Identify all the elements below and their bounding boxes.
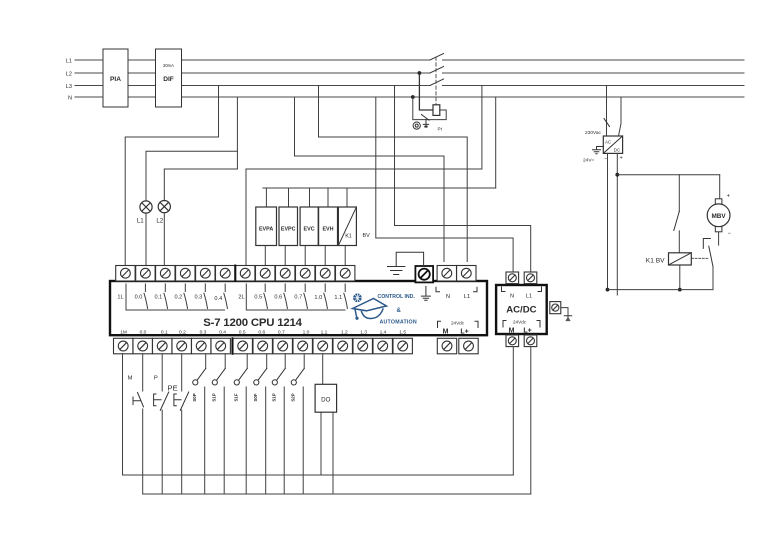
svg-text:EVPA: EVPA (259, 227, 273, 233)
svg-text:L1: L1 (137, 218, 144, 225)
svg-text:230Vac: 230Vac (585, 130, 602, 136)
svg-text:0.6: 0.6 (274, 294, 282, 300)
svg-text:L1: L1 (464, 294, 470, 300)
svg-text:L2: L2 (156, 218, 163, 225)
svg-text:AC: AC (605, 140, 611, 145)
svg-text:0.4: 0.4 (219, 329, 226, 335)
svg-text:Pt: Pt (438, 127, 443, 132)
wire N tap to valve bus riser (495, 97, 497, 188)
svg-text:0.3: 0.3 (195, 294, 203, 300)
svg-text:N: N (446, 294, 450, 300)
svg-text:0.0: 0.0 (135, 294, 143, 300)
pressure switch head PT (413, 122, 420, 129)
svg-text:0.2: 0.2 (179, 329, 186, 335)
svg-text:1L: 1L (117, 294, 123, 300)
svg-text:EVPC: EVPC (281, 227, 296, 233)
dotted linkage K1 (692, 257, 710, 259)
sensor switch S1P (212, 354, 225, 494)
lamp L2 (158, 201, 170, 213)
contactor pole on L3 (430, 79, 444, 86)
svg-text:S0F: S0F (253, 393, 258, 401)
svg-text:1M: 1M (120, 329, 127, 335)
relay contact block K1 BV (338, 207, 356, 246)
svg-text:S-7 1200 CPU 1214: S-7 1200 CPU 1214 (203, 317, 302, 329)
svg-text:0.1: 0.1 (161, 329, 168, 335)
AC/DC output terminal M (506, 335, 519, 347)
K1 auxiliary contact blade (709, 246, 713, 266)
svg-text:24Vdc: 24Vdc (513, 320, 527, 325)
wire motor minus (718, 232, 720, 245)
output module DO (315, 384, 337, 412)
wire bus to EVPA (265, 188, 267, 207)
svg-text:0.2: 0.2 (175, 294, 183, 300)
PLC input 0.2 (184, 284, 188, 309)
svg-text:0.7: 0.7 (294, 294, 302, 300)
wire neutral N (75, 96, 744, 98)
PLC top terminal strip group 1 (116, 266, 235, 282)
sensor switch S0F (254, 354, 267, 494)
PLC bottom channel labels (120, 329, 406, 335)
svg-text:EVH: EVH (322, 227, 333, 233)
minus return rail (608, 289, 714, 291)
pushbutton P (154, 354, 169, 494)
svg-text:S2P: S2P (291, 393, 296, 401)
PLC input 0.1 (164, 284, 168, 309)
svg-text:2L: 2L (238, 294, 244, 300)
K1 auxiliary contact hook (703, 239, 710, 249)
wire bus to EVPC (288, 188, 290, 207)
svg-text:DO: DO (321, 397, 330, 404)
logo globe (353, 293, 362, 302)
wire EVPA to terminal (264, 246, 266, 266)
ground at converter (593, 147, 604, 154)
wire to motor MBV (719, 175, 721, 199)
wire K1 BV to terminal (344, 246, 346, 266)
svg-text:1.3: 1.3 (360, 329, 367, 335)
junction N PT tap (411, 95, 415, 99)
wire N tap to AC/DC N (376, 97, 513, 272)
wire EVPC to terminal (284, 246, 286, 266)
wire EVC to terminal (304, 246, 306, 266)
svg-text:S1P: S1P (272, 393, 277, 401)
wire contact to rail (712, 266, 714, 290)
bracket sensor supply left (436, 287, 440, 292)
sensor switch S0P (193, 354, 206, 494)
wire AC/DC M down (512, 347, 514, 476)
svg-text:1.0: 1.0 (303, 329, 310, 335)
pushbutton M (133, 354, 144, 494)
svg-text:1.5: 1.5 (399, 329, 406, 335)
PLC main unit S-7 1200 CPU 1214 (110, 281, 487, 335)
svg-text:S0P: S0P (192, 393, 197, 401)
svg-text:S1F: S1F (234, 393, 239, 401)
PLC input 1.0 (324, 284, 328, 309)
svg-text:0.3: 0.3 (200, 329, 207, 335)
wire branch to lamp L2 (164, 169, 237, 201)
svg-text:DIF: DIF (163, 76, 174, 83)
wire lamp L2 to input terminal (163, 213, 165, 266)
svg-text:AC/DC: AC/DC (506, 305, 536, 316)
wire 230Vac L3 tap (606, 86, 608, 137)
svg-text:N: N (510, 294, 514, 300)
wire plus branch horizontal (617, 174, 719, 176)
svg-text:1.0: 1.0 (314, 295, 322, 301)
wire bus to EVC (309, 188, 311, 207)
valve EVH (319, 207, 338, 246)
svg-text:+: + (620, 156, 623, 162)
junction L2 PT tap (418, 71, 422, 75)
valve EVPA (256, 207, 277, 246)
wire DO to M-rail (320, 412, 322, 475)
wire converter plus down (616, 153, 618, 295)
lamp L1 (140, 201, 152, 213)
wire 1M to M-rail (122, 354, 124, 475)
svg-text:L+: L+ (523, 328, 531, 335)
wire L3 tap to PLC 2L terminal (246, 86, 482, 266)
PLC input 0.4 (224, 284, 228, 309)
svg-text:PIA: PIA (110, 76, 121, 83)
svg-text:K1: K1 (345, 234, 352, 240)
AC/DC bracket output left (503, 321, 506, 328)
coil PT (433, 105, 440, 116)
PLC bottom terminal strip group 2 (232, 338, 412, 354)
wire L3 tap to AC/DC L1 (395, 86, 531, 273)
sensor switch S1F (234, 354, 247, 494)
wire plus branch to K1 contact (678, 175, 680, 212)
AC/DC output terminal L+ (524, 335, 537, 347)
sensor switch S2P (291, 354, 304, 494)
wire bus to K1 BV (346, 188, 348, 207)
PLC bottom terminal strip group 1 (114, 338, 231, 354)
svg-text:0.5: 0.5 (254, 294, 262, 300)
wire DO to L+-rail (332, 412, 334, 494)
svg-text:0.5: 0.5 (239, 329, 246, 335)
svg-text:30mA: 30mA (163, 63, 174, 68)
power supply AC/DC unit (496, 285, 547, 334)
svg-text:CONTROL IND.: CONTROL IND. (378, 294, 416, 300)
svg-text:−: − (728, 231, 732, 237)
svg-text:L+: L+ (460, 329, 468, 336)
wire N to PT switch (412, 97, 414, 120)
ground symbol at earth terminal (388, 252, 424, 274)
wire L2 to PT coil (419, 73, 433, 110)
wire branch to lamp L1 (146, 151, 237, 201)
svg-text:0.0: 0.0 (140, 329, 147, 335)
PLC input 0.7 (304, 284, 308, 309)
svg-text:+: + (727, 194, 731, 200)
PLC 24Vdc output terminals M L+ (437, 338, 478, 354)
bracket sensor supply right (474, 287, 478, 292)
PLC 1L common bracket (126, 284, 225, 310)
junction coil rail (678, 288, 682, 292)
svg-text:M: M (509, 328, 515, 335)
svg-text:24V=: 24V= (583, 158, 595, 164)
PLC sensor supply terminals N L1 (437, 266, 476, 282)
AC/DC input terminal N (506, 272, 519, 284)
PLC input 0.6 (284, 284, 288, 309)
ground symbol inside PLC (421, 287, 430, 301)
svg-text:L1: L1 (66, 59, 72, 65)
svg-text:S1P: S1P (212, 393, 217, 401)
wire phase L1 (75, 59, 744, 61)
AC/DC bracket input right (538, 287, 542, 292)
L+ rail bottom (143, 493, 531, 495)
wire bus to EVH (327, 188, 329, 207)
svg-text:−: − (604, 156, 607, 162)
AC/DC bracket output right (537, 321, 540, 328)
valve EVC (300, 207, 318, 246)
svg-text:L1: L1 (526, 294, 532, 300)
junction minus rail (606, 288, 610, 292)
svg-text:K1 BV: K1 BV (646, 258, 665, 265)
svg-text:MBV: MBV (711, 213, 726, 220)
AC/DC input terminal L1 (524, 272, 537, 284)
isolator blade left (604, 119, 610, 127)
PLC 2L common bracket (246, 284, 345, 310)
svg-text:DC: DC (614, 148, 620, 153)
svg-text:24Vdc: 24Vdc (451, 321, 465, 326)
PLC input 0.5 (264, 284, 268, 309)
AC/DC side earth terminal (550, 302, 561, 314)
K1 maintain contact blade (674, 211, 680, 230)
svg-text:BV: BV (363, 233, 371, 239)
svg-text:0.6: 0.6 (258, 329, 265, 335)
wire L3 tap to PLC 1L terminal (125, 86, 218, 266)
svg-text:0.7: 0.7 (278, 329, 285, 335)
svg-text:L3: L3 (66, 84, 72, 90)
valve EVPC (279, 207, 298, 246)
pushbutton PE (174, 354, 189, 494)
sensor switch S1P (272, 354, 285, 494)
circuit breaker PIA (103, 49, 128, 107)
switch arm PT (422, 115, 430, 121)
wire contact to coil (678, 231, 680, 253)
svg-text:0.1: 0.1 (155, 294, 163, 300)
wire converter minus down (607, 153, 609, 289)
wire terminal 1.1 to DO (322, 354, 324, 385)
logo graduation cap (353, 299, 387, 319)
converter AC/DC 230V (603, 136, 622, 153)
relay coil K1 BV (669, 253, 692, 265)
svg-text:PE: PE (168, 384, 178, 393)
wire PT coil return loop (413, 110, 446, 120)
svg-text:1.4: 1.4 (380, 329, 387, 335)
wire EVH to terminal (324, 246, 326, 266)
motor MBV (707, 199, 730, 232)
wire N tap to sensor supply N (295, 97, 445, 262)
bracket 24Vdc right (475, 321, 478, 327)
svg-text:M: M (443, 329, 449, 336)
svg-text:M: M (128, 376, 133, 382)
svg-text:1.2: 1.2 (341, 329, 348, 335)
M rail bottom (123, 474, 514, 476)
contactor pole on L2 (430, 67, 444, 74)
PLC input 0.3 (204, 284, 208, 309)
wire phase L3 (75, 85, 744, 87)
svg-text:1.1: 1.1 (321, 329, 328, 335)
svg-text:EVC: EVC (304, 227, 315, 233)
contactor pole on L1 (430, 54, 444, 61)
ground PT (423, 120, 428, 127)
svg-text:L2: L2 (66, 72, 72, 78)
wire lamp L1 to input terminal (145, 213, 147, 265)
AC/DC bracket input left (502, 287, 506, 292)
contactor linkage dashed (435, 57, 437, 104)
PLC top terminal strip group 2 (235, 266, 355, 282)
wire 230Vac N tap (619, 97, 621, 136)
differential breaker DIF (156, 49, 182, 107)
svg-text:P: P (154, 376, 158, 382)
wire N tap lamp feeder (236, 97, 238, 169)
PLC input 0.0 (144, 284, 148, 309)
valve bus (263, 187, 496, 189)
junction plus branch (615, 173, 619, 177)
wire AC/DC L+ down (530, 347, 532, 495)
earth arrow at AC/DC (561, 308, 568, 316)
wire phase L2 (75, 72, 744, 74)
wire coil to rail (679, 265, 681, 290)
svg-text:&: & (397, 308, 402, 314)
svg-text:1.1: 1.1 (334, 295, 342, 301)
svg-text:AUTOMATION: AUTOMATION (380, 319, 417, 325)
svg-text:N: N (68, 96, 72, 102)
svg-text:0.4: 0.4 (214, 296, 222, 302)
PLC input 1.1 (344, 284, 348, 309)
wire L3 tap to sensor supply L1 (319, 86, 468, 262)
PLC earth terminal (415, 266, 433, 282)
bracket 24Vdc left (438, 321, 441, 327)
